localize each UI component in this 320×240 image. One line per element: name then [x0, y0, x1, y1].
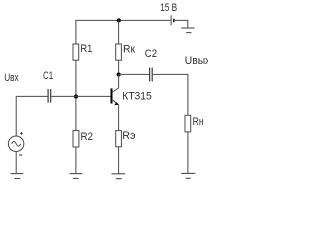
battery GB1 long electrode [170, 15, 172, 25]
wire input left segment [16, 95, 47, 97]
svg-text:R2: R2 [81, 131, 94, 143]
wire Rk rail from top junction [118, 20, 120, 44]
wire emitter to Re [118, 105, 120, 131]
node junction dot collector [117, 72, 121, 76]
resistor Rk [116, 44, 122, 60]
battery GB1 short thick electrode [173, 19, 175, 23]
capacitor C2 [150, 68, 153, 82]
ground under R2 [70, 174, 83, 179]
svg-text:Uвых: Uвых [185, 55, 208, 67]
wire C2 to output corner [153, 74, 188, 115]
wire source to ground [15, 152, 17, 174]
wire source vertical upper [15, 96, 17, 136]
svg-text:C2: C2 [145, 48, 157, 60]
resistor R2 [73, 131, 79, 147]
svg-text:R1: R1 [80, 43, 92, 55]
wire top rail from R1 to battery [76, 20, 171, 44]
transistor emitter arrowhead [114, 102, 118, 105]
ground under source [11, 174, 24, 179]
svg-text:КТ315: КТ315 [122, 90, 152, 102]
ground under Rn [181, 173, 195, 178]
source G1 circle [8, 136, 24, 152]
transistor collector lead [112, 74, 119, 92]
svg-text:15 В: 15 В [160, 2, 177, 14]
wire Rn to ground [187, 132, 189, 174]
svg-text:Rн: Rн [193, 116, 204, 128]
minus marker [19, 154, 22, 156]
wire Re to ground [118, 147, 120, 174]
plus marker [20, 132, 23, 135]
svg-text:Rк: Rк [123, 44, 135, 56]
wire collector junction to C2 [119, 73, 150, 75]
svg-text:C1: C1 [43, 70, 53, 82]
resistor Rn [185, 115, 191, 132]
wire R2 to ground [75, 147, 77, 174]
resistor R1 [73, 44, 79, 60]
wire R1 to base junction to R2 [75, 60, 77, 130]
transistor VT1 base bar [111, 88, 113, 103]
ground top-right [181, 28, 194, 33]
wire C1 to transistor base [51, 95, 110, 97]
node junction dot base [74, 94, 78, 98]
wire Rk to collector junction [118, 60, 120, 74]
transistor emitter lead [112, 99, 119, 105]
capacitor C1 [48, 89, 51, 103]
svg-text:Rэ: Rэ [122, 130, 136, 142]
svg-text:Uвх: Uвх [4, 72, 19, 84]
resistor Re [116, 131, 122, 147]
ground under Re [112, 174, 126, 179]
source sine wave [12, 142, 21, 147]
wire battery to top-right corner [175, 20, 188, 28]
node junction dot top rail / Rk [117, 18, 121, 22]
